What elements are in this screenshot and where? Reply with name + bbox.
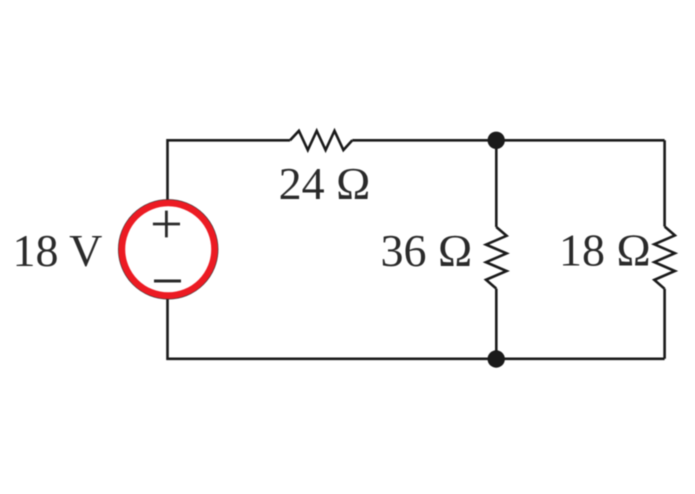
resistor R1 24 ohm zigzag: [290, 131, 352, 150]
wire top rail right of R1: [352, 139, 664, 142]
svg-text:18 V: 18 V: [13, 225, 103, 276]
wire middle branch upper: [495, 140, 498, 227]
wire right branch upper: [663, 140, 666, 226]
svg-text:36 Ω: 36 Ω: [381, 225, 473, 276]
node A top junction dot: [488, 132, 505, 149]
svg-text:18 Ω: 18 Ω: [559, 225, 651, 276]
svg-text:24 Ω: 24 Ω: [279, 158, 371, 209]
voltage source V1 outline shadow: [119, 200, 218, 299]
wire top-left corner from source to top rail: [168, 140, 291, 200]
wire middle branch lower: [495, 289, 498, 359]
minus sign inside source: [154, 280, 181, 283]
resistor R2 36 ohm zigzag: [486, 227, 507, 289]
plus sign inside source: [153, 211, 180, 238]
resistor R3 18 ohm zigzag: [654, 227, 675, 289]
wire bottom rail: [168, 299, 665, 359]
node B bottom junction dot: [488, 350, 505, 367]
voltage source V1 red circle: [122, 203, 215, 296]
wire right branch lower: [663, 289, 666, 359]
